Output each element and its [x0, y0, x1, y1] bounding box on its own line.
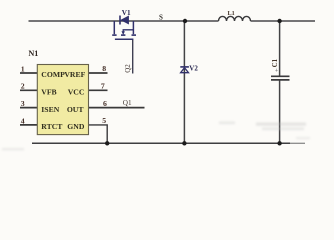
- watermark smudge right: [2, 122, 310, 151]
- svg-text:VREF: VREF: [64, 70, 85, 79]
- junction node gnd pin5: [105, 141, 109, 145]
- wire pin5 to ground rail: [89, 125, 108, 143]
- wire bottom rail: [32, 142, 290, 144]
- wire top rail right segment: [251, 20, 316, 22]
- junction node gnd C1: [277, 141, 281, 145]
- svg-text:+: +: [275, 68, 279, 75]
- capacitor C1 bottom plate: [271, 79, 290, 81]
- wire C1 branch vertical upper: [279, 21, 281, 76]
- diode V2 cathode bar: [180, 66, 189, 68]
- svg-text:ISEN: ISEN: [41, 105, 59, 114]
- wire pin1 stub: [20, 72, 37, 74]
- svg-text:Q1: Q1: [123, 99, 132, 107]
- svg-text:S: S: [159, 14, 163, 22]
- diode V2 triangle: [181, 68, 189, 73]
- transistor V1 gate bar: [115, 38, 133, 40]
- IC N1 box: [37, 65, 88, 135]
- transistor V1 body branch: [123, 30, 133, 32]
- svg-text:L1: L1: [228, 10, 235, 17]
- capacitor C1 top plate: [271, 75, 290, 77]
- wire pin7 stub: [89, 89, 108, 91]
- svg-text:COMP: COMP: [41, 70, 65, 79]
- transistor V1 body diode triangle: [121, 16, 129, 24]
- wire C1 branch vertical lower: [279, 80, 281, 143]
- svg-text:OUT: OUT: [67, 105, 85, 114]
- svg-text:VCC: VCC: [68, 88, 85, 97]
- transistor V1 left leg: [113, 21, 115, 34]
- wire pin6 net Q1: [89, 107, 145, 109]
- svg-text:8: 8: [102, 64, 106, 73]
- svg-text:7: 7: [101, 82, 105, 91]
- wire pin2 stub: [20, 89, 37, 91]
- svg-text:4: 4: [21, 116, 25, 125]
- wire top rail left segment: [29, 20, 219, 22]
- svg-text:Q2: Q2: [124, 64, 132, 73]
- wire V2 branch vertical: [183, 21, 185, 143]
- junction node gnd V2: [182, 141, 186, 145]
- svg-text:2: 2: [21, 82, 25, 91]
- svg-text:1: 1: [21, 64, 25, 73]
- svg-text:V2: V2: [189, 64, 198, 72]
- svg-text:RTCT: RTCT: [41, 122, 63, 131]
- svg-text:N1: N1: [28, 49, 38, 58]
- wire bottom rail fading end: [290, 142, 305, 144]
- svg-text:3: 3: [21, 99, 25, 108]
- svg-text:VFB: VFB: [41, 88, 56, 97]
- svg-text:GND: GND: [67, 122, 85, 131]
- svg-text:C1: C1: [271, 58, 279, 67]
- wire pin8 stub: [89, 72, 108, 74]
- transistor V1 channel dash left: [112, 34, 116, 36]
- inductor L1 coil: [219, 16, 251, 21]
- wire pin4 stub: [20, 124, 37, 126]
- wire pin3 stub: [20, 107, 37, 109]
- svg-text:6: 6: [103, 99, 107, 108]
- transistor V1 channel dash right: [132, 34, 137, 36]
- transistor V1 body diode cathode bar: [119, 16, 121, 25]
- transistor V1 body arrow: [122, 31, 125, 35]
- transistor V1 channel dash middle: [121, 34, 125, 36]
- transistor V1 right leg: [132, 21, 134, 34]
- junction node S top: [183, 19, 187, 23]
- svg-text:5: 5: [102, 116, 106, 125]
- wire V1 gate net Q2: [132, 40, 134, 74]
- junction node C1 top: [277, 19, 281, 23]
- svg-text:V1: V1: [122, 9, 131, 17]
